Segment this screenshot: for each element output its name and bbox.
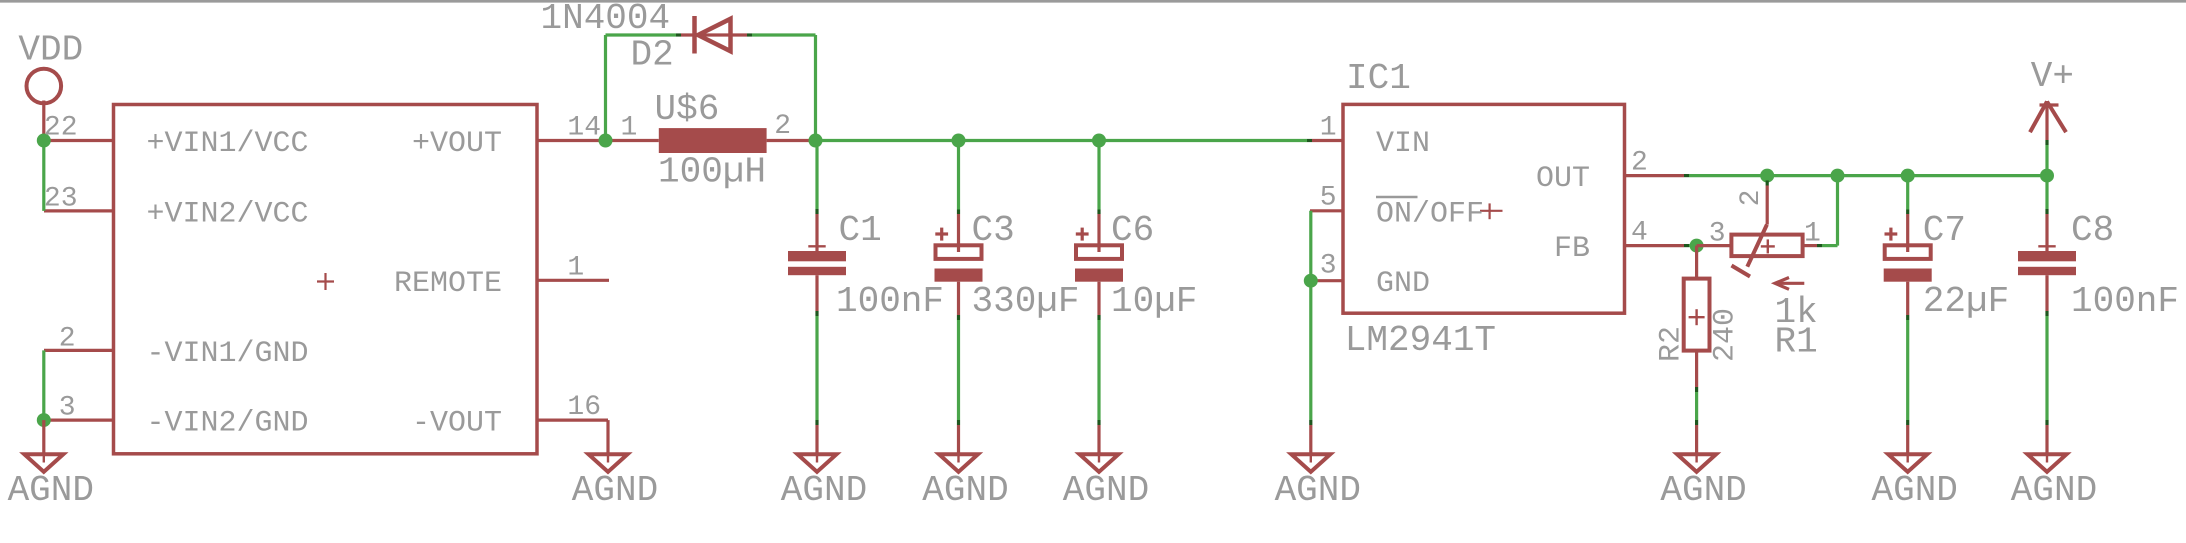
svg-text:1N4004: 1N4004 [541, 0, 671, 39]
svg-text:2: 2 [774, 111, 791, 142]
svg-text:R1: R1 [1775, 322, 1818, 363]
svg-text:R2: R2 [1655, 326, 1689, 362]
svg-text:AGND: AGND [1063, 470, 1149, 511]
svg-text:2: 2 [59, 324, 76, 355]
svg-text:C1: C1 [839, 210, 882, 251]
svg-text:100µH: 100µH [658, 151, 766, 192]
svg-text:REMOTE: REMOTE [394, 267, 502, 301]
svg-text:AGND: AGND [2011, 470, 2097, 511]
svg-text:-VIN1/GND: -VIN1/GND [147, 337, 309, 371]
svg-text:1: 1 [1320, 113, 1337, 144]
svg-text:1: 1 [567, 253, 584, 284]
svg-text:LM2941T: LM2941T [1345, 320, 1496, 361]
svg-text:1: 1 [1804, 219, 1821, 250]
svg-text:3: 3 [1709, 219, 1726, 250]
svg-text:AGND: AGND [922, 470, 1008, 511]
svg-text:C7: C7 [1923, 210, 1966, 251]
svg-text:-VOUT: -VOUT [412, 407, 502, 441]
svg-text:+VOUT: +VOUT [412, 127, 502, 161]
svg-text:FB: FB [1554, 232, 1590, 266]
svg-text:22µF: 22µF [1923, 281, 2009, 322]
svg-text:3: 3 [59, 393, 76, 424]
svg-text:VDD: VDD [18, 30, 83, 71]
svg-text:V+: V+ [2031, 56, 2074, 97]
svg-text:AGND: AGND [8, 470, 94, 511]
svg-text:330µF: 330µF [972, 281, 1080, 322]
svg-text:C6: C6 [1111, 210, 1154, 251]
svg-text:100nF: 100nF [836, 281, 944, 322]
svg-text:OUT: OUT [1536, 162, 1590, 196]
svg-text:IC1: IC1 [1346, 58, 1411, 99]
svg-text:5: 5 [1320, 183, 1337, 214]
svg-text:U$6: U$6 [655, 89, 720, 130]
svg-text:ON/OFF: ON/OFF [1376, 197, 1484, 231]
svg-text:D2: D2 [631, 35, 674, 76]
svg-text:C8: C8 [2071, 210, 2114, 251]
svg-text:2: 2 [1736, 190, 1767, 207]
svg-text:-VIN2/GND: -VIN2/GND [147, 407, 309, 441]
svg-text:AGND: AGND [1871, 470, 1957, 511]
svg-text:3: 3 [1320, 251, 1337, 282]
svg-text:AGND: AGND [1660, 470, 1746, 511]
svg-text:23: 23 [44, 184, 78, 215]
svg-text:VIN: VIN [1376, 127, 1430, 161]
svg-text:22: 22 [44, 113, 78, 144]
svg-text:AGND: AGND [572, 470, 658, 511]
svg-text:+VIN2/VCC: +VIN2/VCC [147, 197, 309, 231]
svg-text:240: 240 [1709, 308, 1743, 362]
svg-text:10µF: 10µF [1111, 281, 1197, 322]
svg-text:+VIN1/VCC: +VIN1/VCC [147, 127, 309, 161]
svg-text:16: 16 [567, 392, 601, 423]
svg-text:4: 4 [1631, 218, 1648, 249]
svg-text:C3: C3 [972, 210, 1015, 251]
svg-text:AGND: AGND [781, 470, 867, 511]
svg-text:AGND: AGND [1275, 470, 1361, 511]
svg-text:14: 14 [567, 113, 601, 144]
svg-text:GND: GND [1376, 267, 1430, 301]
svg-text:100nF: 100nF [2071, 281, 2179, 322]
svg-text:1: 1 [621, 113, 638, 144]
svg-text:2: 2 [1631, 148, 1648, 179]
